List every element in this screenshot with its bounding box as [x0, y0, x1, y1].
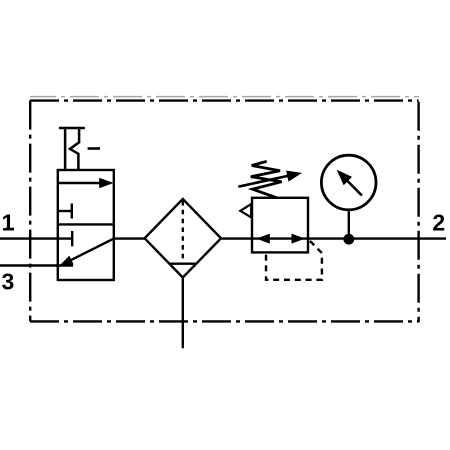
wire filter to regulator	[221, 237, 253, 239]
regulator R1 adjustment spring	[251, 161, 282, 198]
filter F1 condensate drain line	[182, 278, 184, 349]
on-off valve V1 body	[58, 170, 114, 280]
port 3 label	[2, 269, 15, 295]
enclosure dash-dot boundary top	[30, 99, 419, 101]
filter F1 separator chord	[170, 263, 196, 265]
enclosure ghost top edge	[30, 96, 419, 98]
regulator R1 body	[252, 198, 308, 253]
wire port 1 into valve	[0, 237, 72, 239]
regulator R1 left flow arrowhead	[256, 234, 270, 244]
enclosure dash-dot boundary left	[29, 101, 31, 322]
wire valve to filter	[114, 237, 145, 239]
svg-text:3: 3	[2, 269, 15, 295]
regulator R1 flow line	[252, 237, 308, 239]
gauge G1 needle	[337, 170, 362, 196]
regulator R1 adjustment arrow	[238, 171, 302, 187]
wire port 2 output	[308, 237, 446, 239]
enclosure dash-dot boundary bottom	[30, 320, 419, 322]
svg-text:1: 1	[2, 209, 15, 235]
port 2 label	[432, 210, 445, 236]
regulator R1 pilot feedback dashed line	[266, 241, 322, 280]
port 1 label	[2, 209, 15, 235]
valve V1 exhaust diagonal arrow (lower box)	[59, 239, 114, 267]
enclosure dash-dot boundary right	[417, 102, 419, 322]
regulator R1 relief vent triangle	[240, 204, 251, 217]
filter F1 dashed element line	[182, 201, 184, 262]
regulator R1 right flow arrowhead	[292, 234, 306, 244]
filter F1 diamond	[145, 199, 221, 278]
valve V1 open-position flow arrow	[58, 178, 114, 188]
valve V1 blocked port (upper box)	[58, 204, 72, 219]
wire port 3 into valve	[0, 264, 73, 266]
valve V1 blocked port (lower box)	[71, 231, 73, 246]
valve V1 manual actuator with detent	[59, 127, 100, 170]
gauge G1 dial circle	[321, 155, 376, 210]
junction node at gauge tap	[343, 234, 354, 245]
gauge G1 stem	[348, 211, 350, 239]
svg-text:2: 2	[432, 210, 445, 236]
